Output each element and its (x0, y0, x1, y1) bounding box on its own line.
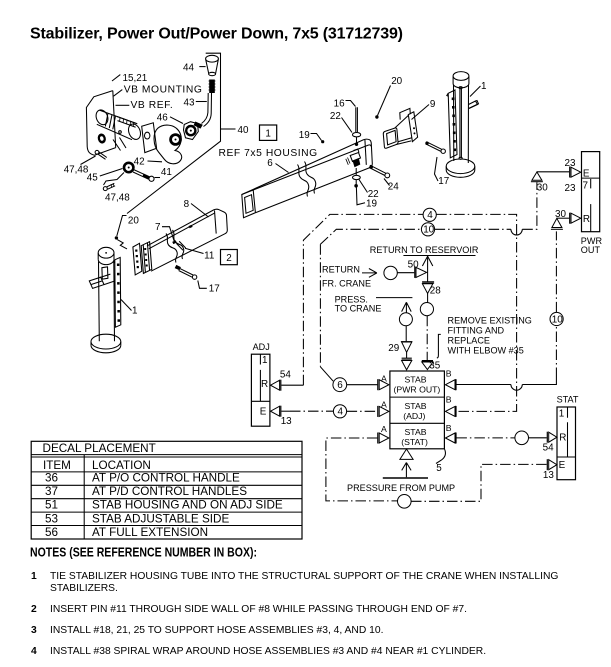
svg-text:R: R (261, 379, 268, 390)
svg-text:REPLACE: REPLACE (448, 336, 490, 346)
svg-text:16: 16 (334, 98, 345, 109)
svg-text:10: 10 (423, 225, 434, 236)
svg-text:44: 44 (183, 63, 194, 74)
triangle 28 (422, 284, 432, 294)
STAT E fitting (546, 459, 548, 470)
svg-text:56: 56 (45, 526, 58, 539)
tube 6 break lines (298, 165, 309, 197)
svg-text:1: 1 (481, 81, 487, 92)
svg-text:INSERT PIN #11 THROUGH SIDE WA: INSERT PIN #11 THROUGH SIDE WALL OF #8 W… (50, 604, 467, 615)
port A fittings (378, 373, 389, 443)
svg-text:46: 46 (157, 112, 168, 123)
double bar + triangle into block A (402, 358, 412, 360)
svg-text:30: 30 (537, 182, 548, 193)
svg-text:(ADJ): (ADJ) (403, 411, 425, 421)
arrow up to reservoir (427, 256, 429, 282)
svg-text:45: 45 (87, 172, 98, 183)
ADJ R fitting (280, 380, 282, 391)
svg-text:13: 13 (281, 416, 292, 427)
svg-text:ADJ: ADJ (253, 342, 270, 352)
bolt near bracket (17 shaft) (426, 142, 442, 152)
right leg handle (469, 101, 479, 109)
ADJ E fitting (280, 406, 282, 417)
svg-text:50: 50 (408, 259, 419, 270)
bolt 24 (369, 165, 386, 175)
line 28 to circle (427, 294, 429, 303)
svg-text:54: 54 (543, 443, 554, 454)
svg-text:20: 20 (391, 76, 402, 87)
svg-text:INSTALL #18, 21, 25 TO SUPPORT: INSTALL #18, 21, 25 TO SUPPORT HOSE ASSE… (50, 625, 383, 636)
decal placement table (31, 441, 302, 539)
bolt 17 left (179, 268, 194, 277)
housing tube 6 (242, 139, 373, 218)
svg-text:B: B (446, 395, 452, 405)
STAT R fitting (546, 432, 548, 443)
tube 6 end face inner (245, 195, 254, 214)
svg-text:ITEM: ITEM (43, 459, 71, 472)
svg-text:(PWR OUT): (PWR OUT) (394, 385, 441, 395)
svg-text:43: 43 (184, 97, 195, 108)
hose circle (return) (384, 266, 397, 279)
svg-text:DECAL PLACEMENT: DECAL PLACEMENT (43, 442, 156, 455)
svg-text:R: R (583, 214, 590, 225)
svg-text:35: 35 (429, 361, 440, 372)
svg-text:2: 2 (226, 253, 232, 264)
body lower lug (113, 138, 126, 151)
svg-text:4: 4 (338, 407, 344, 418)
svg-text:A: A (381, 373, 387, 383)
svg-text:STAB: STAB (405, 427, 427, 437)
knob 44 (206, 55, 219, 62)
svg-text:STAB HOUSING AND ON ADJ SIDE: STAB HOUSING AND ON ADJ SIDE (92, 498, 283, 511)
fitting at PWR OUT R (569, 213, 571, 224)
arrow up to press line (402, 302, 412, 313)
svg-text:R: R (559, 433, 566, 444)
svg-text:STAB ADJUSTABLE SIDE: STAB ADJUSTABLE SIDE (92, 512, 229, 525)
svg-text:E: E (260, 406, 267, 417)
svg-text:STAB: STAB (405, 375, 427, 385)
svg-text:4: 4 (427, 210, 433, 221)
leader 40 (221, 128, 236, 130)
svg-text:FR. CRANE: FR. CRANE (322, 278, 371, 288)
E line to PWR OUT (537, 171, 569, 173)
washer stack 42/45 (124, 163, 133, 172)
svg-text:STAB: STAB (405, 401, 427, 411)
ref box 1 (260, 125, 277, 140)
svg-text:4: 4 (31, 646, 37, 657)
fitting 28 double bar (422, 282, 434, 283)
hose 4 bottom: ADJ E to A(ADJ) (281, 410, 290, 412)
svg-text:5: 5 (436, 463, 442, 474)
svg-text:41: 41 (161, 167, 172, 178)
svg-text:37: 37 (45, 485, 58, 498)
PWR OUT cylinder (582, 152, 600, 232)
svg-text:A: A (381, 424, 387, 434)
svg-text:RETURN TO RESERVOIR: RETURN TO RESERVOIR (370, 245, 479, 255)
svg-text:23: 23 (565, 183, 576, 194)
svg-text:Stabilizer, Power Out/Power Do: Stabilizer, Power Out/Power Down, 7x5 (3… (30, 26, 403, 43)
rod 43 (202, 93, 212, 127)
mounting plate (86, 91, 115, 156)
svg-text:7: 7 (155, 222, 161, 233)
bracket 9 (383, 128, 398, 148)
svg-text:OUT: OUT (581, 245, 601, 255)
svg-text:11: 11 (204, 250, 215, 261)
svg-text:9: 9 (430, 99, 436, 110)
hose STAB(STAT) B to STAT R (456, 437, 515, 439)
svg-text:1: 1 (559, 409, 565, 420)
check valve fitting 50 (414, 267, 416, 278)
svg-text:STABILIZERS.: STABILIZERS. (50, 583, 118, 594)
triangle fitting 30 on E line (532, 172, 542, 180)
svg-text:TIE STABILIZER HOUSING TUBE IN: TIE STABILIZER HOUSING TUBE INTO THE STR… (50, 571, 558, 582)
valve body slot (117, 117, 136, 128)
bolt 16 (356, 107, 358, 132)
plate grommet (97, 133, 107, 145)
svg-text:2: 2 (31, 604, 37, 615)
housing boundary line (127, 53, 221, 213)
hose circle 10 (top) (421, 223, 434, 236)
leader 5 (436, 449, 445, 464)
hose line circle-10 right: STAB(PWR OUT) B to PWR OUT R (456, 384, 511, 386)
svg-text:NOTES (SEE REFERENCE NUMBER IN: NOTES (SEE REFERENCE NUMBER IN BOX): (30, 545, 257, 560)
svg-text:PRESSURE FROM PUMP: PRESSURE FROM PUMP (347, 483, 455, 493)
svg-text:3: 3 (31, 625, 37, 636)
washer 22 bottom (353, 175, 361, 179)
svg-text:(STAT): (STAT) (401, 437, 428, 447)
triangle fitting 30 on R line (552, 218, 562, 227)
plate 7 front (133, 243, 142, 275)
nut 46 (184, 122, 199, 140)
leg handle left (89, 277, 104, 288)
elbow 35 triangle (422, 360, 433, 362)
right leg 1 (453, 72, 469, 81)
plate 7 rear (141, 242, 152, 274)
valve body cylinder (94, 108, 110, 126)
threaded stud of 44 (209, 80, 215, 94)
hose circle 4 (top) (423, 208, 436, 221)
pump arrow (402, 463, 411, 478)
svg-text:19: 19 (299, 130, 310, 141)
ref box 2 (221, 250, 238, 265)
svg-text:REF 7x5 HOUSING: REF 7x5 HOUSING (219, 148, 318, 159)
left leg base (91, 334, 121, 349)
svg-text:E: E (559, 460, 566, 471)
svg-text:36: 36 (45, 472, 58, 485)
svg-text:54: 54 (280, 369, 291, 380)
svg-text:TO CRANE: TO CRANE (335, 304, 382, 314)
right leg rack (448, 90, 457, 158)
svg-text:6: 6 (337, 380, 343, 391)
pump triangle under block (400, 449, 413, 459)
svg-text:1: 1 (265, 129, 271, 140)
svg-text:15,21: 15,21 (123, 73, 148, 84)
svg-text:28: 28 (430, 285, 441, 296)
left leg 1 (98, 247, 114, 258)
svg-text:53: 53 (45, 512, 58, 525)
svg-text:17: 17 (209, 284, 220, 295)
leg label plate (102, 267, 108, 279)
valve block 5 (390, 371, 445, 449)
svg-text:47,48: 47,48 (64, 164, 89, 175)
fitting 29 triangle (401, 341, 412, 343)
svg-text:29: 29 (388, 343, 399, 354)
svg-text:1: 1 (31, 571, 37, 582)
fitting 23 at PWR OUT E (569, 167, 571, 178)
svg-text:20: 20 (128, 216, 139, 227)
svg-text:40: 40 (238, 125, 249, 136)
svg-text:FITTING AND: FITTING AND (448, 326, 505, 336)
hose circle 10 (right) (550, 312, 563, 325)
pin 11 marks (172, 240, 177, 244)
zigzag leader to lower screw (104, 173, 125, 186)
hose line circle-10 top: to PWR OUT E (320, 229, 421, 244)
svg-text:B: B (446, 368, 452, 378)
elbow fitting on tube face (350, 153, 360, 162)
svg-text:VB MOUNTING: VB MOUNTING (124, 85, 203, 96)
svg-text:LOCATION: LOCATION (92, 459, 151, 472)
svg-text:1: 1 (132, 306, 138, 317)
tube 8 break lines (166, 234, 177, 263)
svg-text:VB REF.: VB REF. (131, 100, 174, 111)
svg-text:51: 51 (45, 498, 58, 511)
right leg base (446, 159, 475, 174)
hose 6: to A(PWR OUT) (333, 378, 347, 392)
svg-text:8: 8 (184, 199, 190, 210)
screw 47,48 lower (107, 183, 115, 189)
svg-text:WITH ELBOW #35: WITH ELBOW #35 (448, 346, 524, 356)
svg-text:INSTALL #38 SPIRAL WRAP AROUND: INSTALL #38 SPIRAL WRAP AROUND HOSE ASSE… (50, 646, 486, 657)
arrow right from RETURN (362, 269, 377, 278)
svg-text:AT P/O CONTROL HANDLE: AT P/O CONTROL HANDLE (92, 472, 240, 485)
svg-text:AT P/D CONTROL HANDLES: AT P/D CONTROL HANDLES (92, 485, 247, 498)
rack strip left leg (115, 257, 121, 327)
svg-text:17: 17 (438, 176, 449, 187)
svg-text:19: 19 (366, 199, 377, 210)
screw 47,48 upper (98, 152, 107, 160)
svg-text:STAT: STAT (557, 395, 579, 405)
svg-text:E: E (583, 169, 590, 180)
svg-text:23: 23 (565, 158, 576, 169)
svg-text:AT FULL EXTENSION: AT FULL EXTENSION (92, 526, 208, 539)
port B fittings (445, 368, 456, 443)
svg-text:7: 7 (583, 180, 589, 191)
svg-text:42: 42 (134, 157, 145, 168)
middle bracket plate (142, 123, 157, 153)
lobe shape (154, 125, 182, 164)
svg-text:REMOVE EXISTING: REMOVE EXISTING (448, 316, 532, 326)
pump supply hose to STAT A (326, 438, 398, 501)
svg-text:RETURN: RETURN (322, 265, 360, 275)
svg-text:6: 6 (267, 158, 273, 169)
svg-text:A: A (381, 400, 387, 410)
svg-text:22: 22 (330, 111, 341, 122)
svg-text:1: 1 (262, 355, 268, 366)
tube 8 body (147, 209, 227, 271)
svg-text:10: 10 (552, 314, 563, 325)
bolt 41 (133, 170, 150, 180)
svg-text:B: B (446, 423, 452, 433)
svg-text:13: 13 (543, 470, 554, 481)
svg-text:24: 24 (388, 181, 399, 192)
hose line 54/circle-4 top: ADJ R to STAB(ADJ) B (281, 384, 303, 386)
svg-text:47,48: 47,48 (105, 192, 130, 203)
